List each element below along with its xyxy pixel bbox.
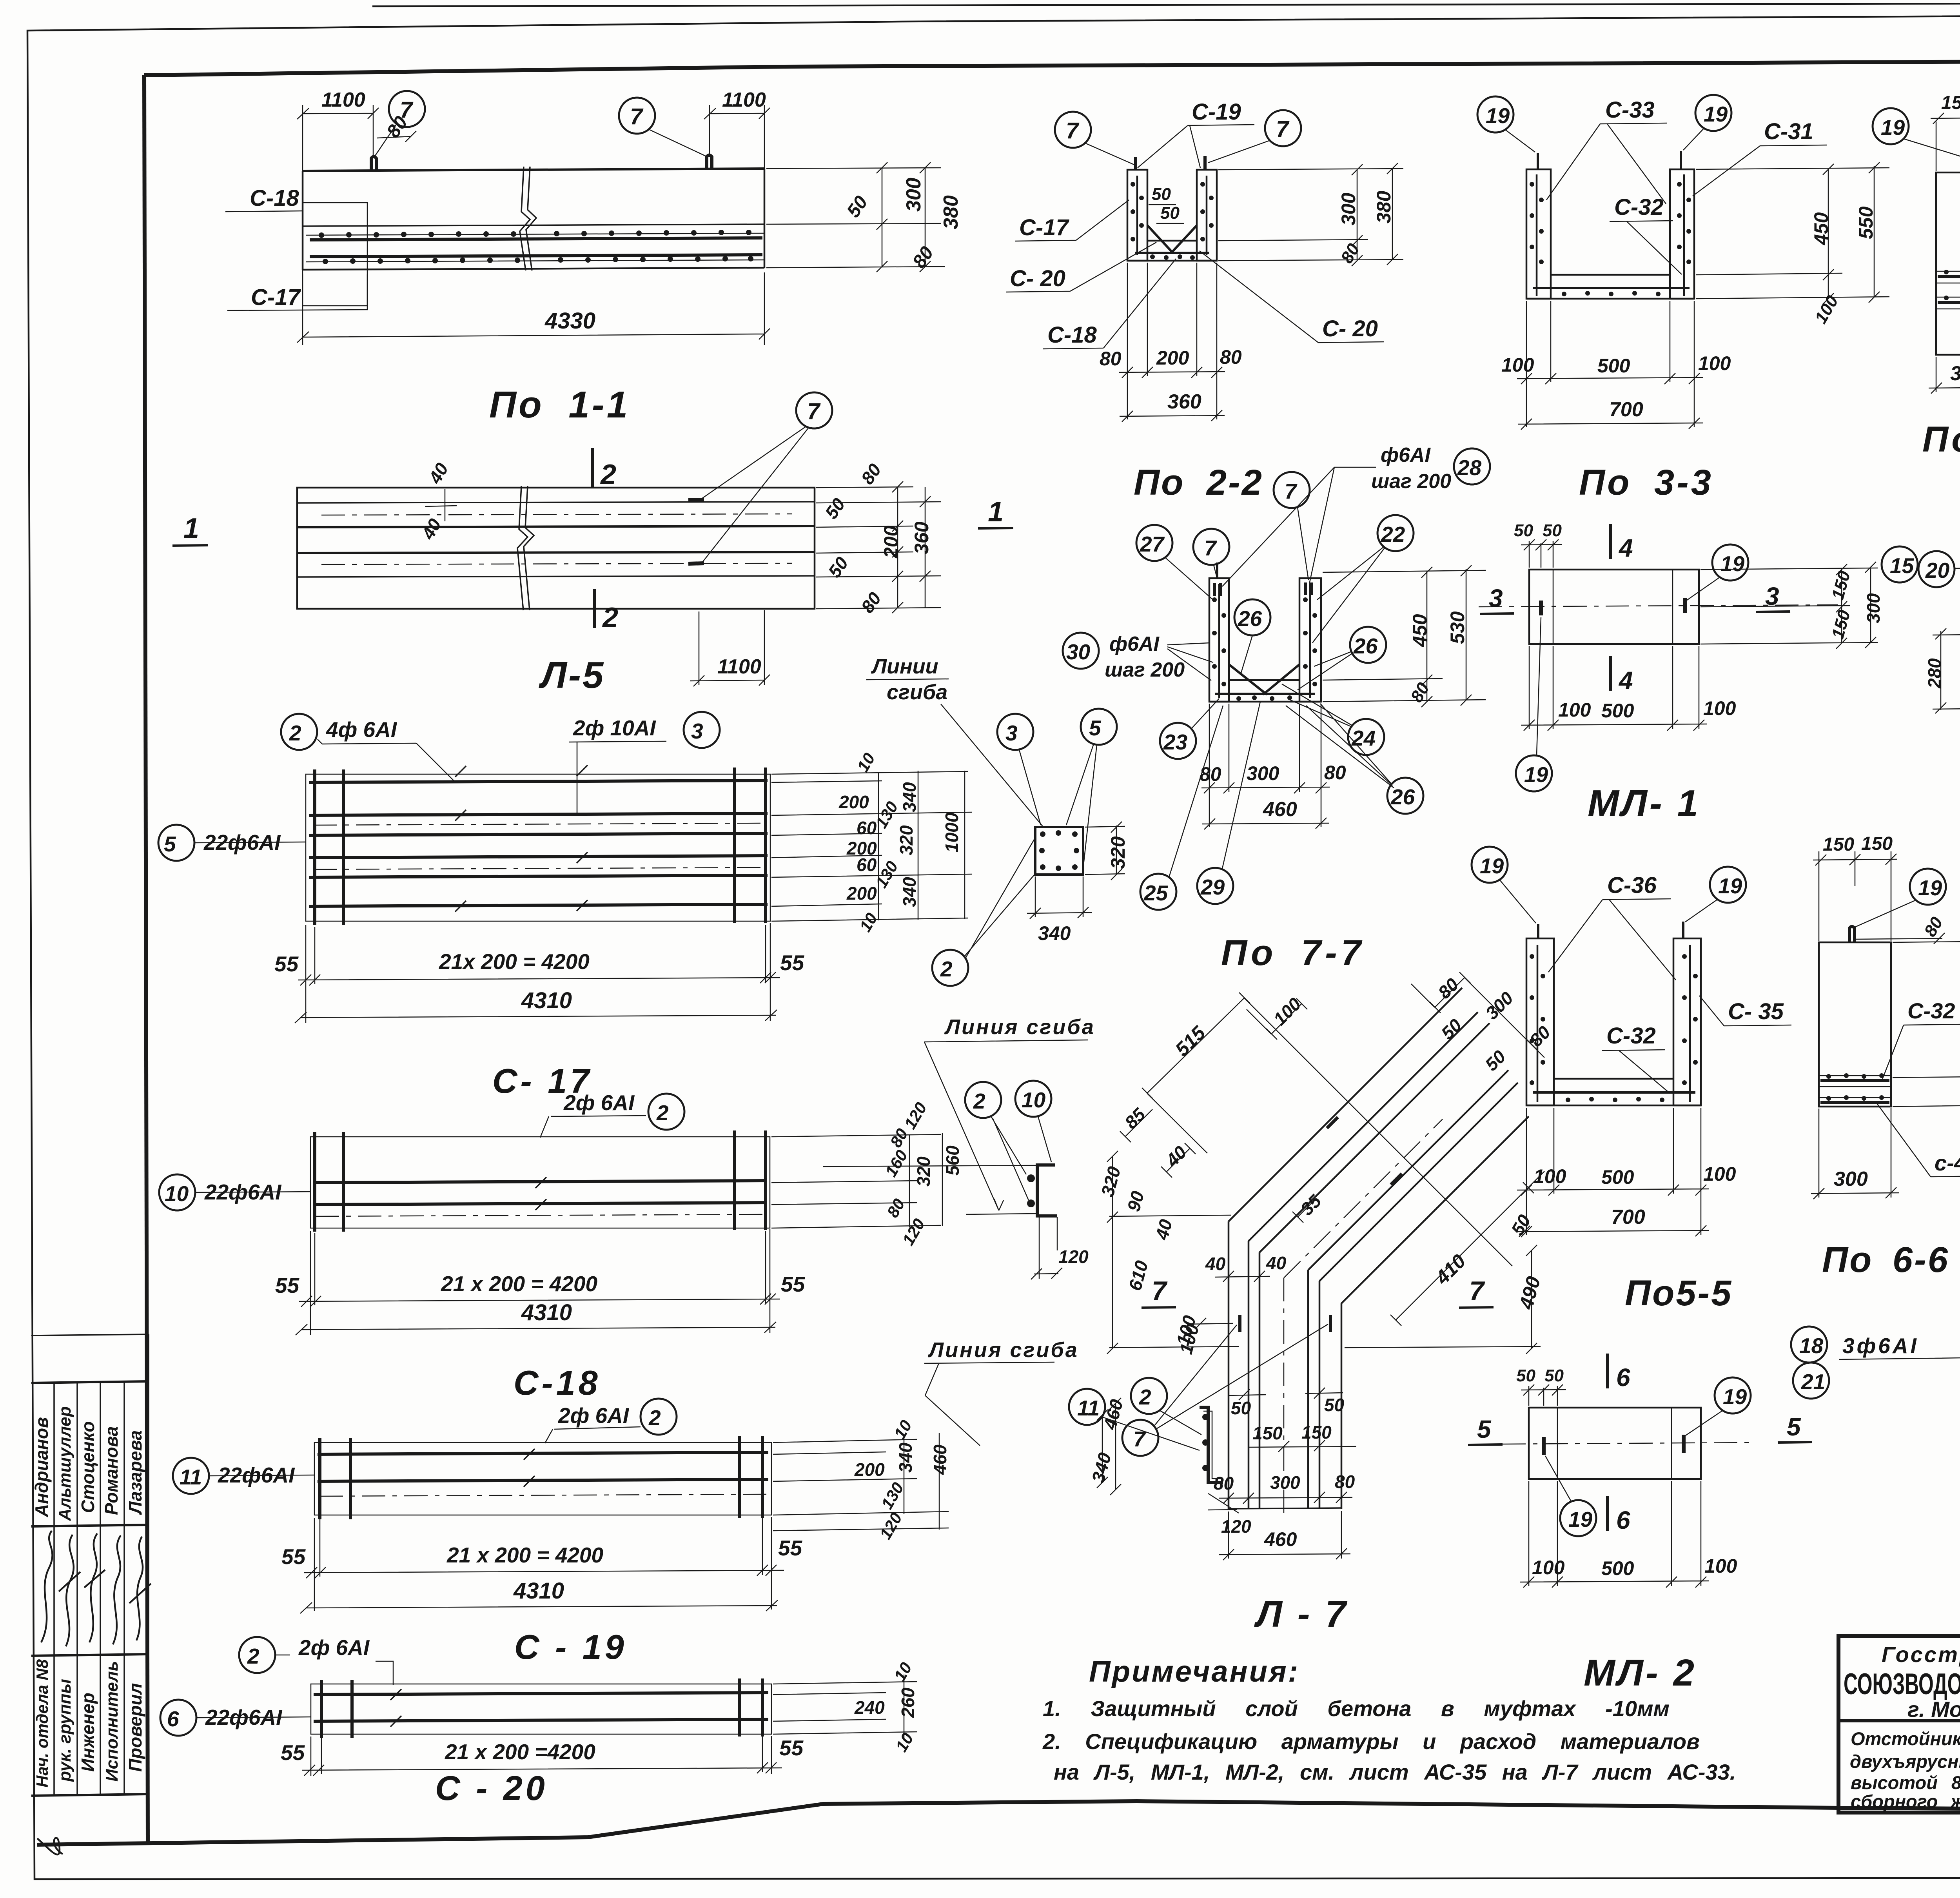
svg-text:260: 260 (898, 1688, 918, 1718)
svg-text:Линия сгиба: Линия сгиба (927, 1338, 1079, 1362)
svg-text:19: 19 (1723, 1384, 1747, 1409)
svg-text:С-18: С-18 (514, 1363, 601, 1402)
svg-text:С-32: С-32 (1606, 1023, 1656, 1049)
bottom dim 460 (1219, 1511, 1350, 1560)
svg-text:80: 80 (1200, 763, 1221, 785)
signature table right edge (147, 1334, 149, 1795)
hooks (1538, 922, 1683, 938)
svg-text:50: 50 (1324, 1395, 1345, 1415)
dim 40 (1161, 1143, 1196, 1178)
svg-text:50: 50 (1160, 203, 1180, 223)
svg-text:сборного железобетона.: сборного железобетона. (1851, 1791, 1960, 1812)
bracket dim 120 (1031, 1268, 1062, 1279)
dash-dot (319, 1494, 766, 1496)
svg-text:1: 1 (183, 513, 199, 544)
right wall (1299, 578, 1321, 702)
end cross bars (321, 1678, 762, 1738)
svg-text:100: 100 (1501, 354, 1534, 376)
svg-text:ф6АI: ф6АI (1109, 633, 1160, 655)
svg-text:Л-5: Л-5 (539, 654, 605, 696)
svg-text:100: 100 (1703, 697, 1736, 719)
svg-text:2ф 6АI: 2ф 6АI (298, 1635, 370, 1660)
trunk bottom (1229, 1508, 1341, 1509)
svg-text:1100: 1100 (722, 89, 766, 111)
svg-text:100: 100 (1532, 1557, 1565, 1579)
svg-text:340: 340 (899, 877, 920, 907)
bent bars С-20 (1135, 225, 1209, 253)
callout 6 22ф6AI (160, 1700, 196, 1736)
mid ticks (535, 1177, 546, 1210)
bottom dims (1521, 646, 1707, 731)
svg-text:100: 100 (1558, 699, 1591, 721)
callout 30 ф6AI шаг 200 left (1063, 633, 1099, 669)
right wall (1673, 938, 1701, 1105)
signature scrawl 2 (59, 1535, 80, 1646)
signature table band lines (31, 1381, 148, 1383)
callout 26 mid-left (1234, 599, 1270, 635)
dim 150 150 top (1813, 851, 1897, 941)
hooks on wall tops (1136, 156, 1205, 170)
tick above left wall (1216, 563, 1218, 578)
trunk rebar dashes (1240, 1315, 1330, 1332)
svg-text:2: 2 (656, 1101, 669, 1125)
right dims (1893, 936, 1960, 1112)
svg-text:150: 150 (1252, 1423, 1283, 1443)
callout 26 bottom (1387, 778, 1423, 814)
svg-text:двухъярусные диаметром 9м: двухъярусные диаметром 9м (1850, 1751, 1960, 1772)
bottom slab (1127, 241, 1217, 261)
svg-text:55: 55 (781, 1272, 806, 1296)
svg-text:150: 150 (1823, 834, 1854, 855)
svg-text:320: 320 (896, 825, 916, 855)
branch rebar dashes (1327, 1117, 1402, 1185)
svg-text:550: 550 (1855, 206, 1877, 239)
callout 19 bottom (1560, 1500, 1596, 1536)
title block outer (1838, 1636, 1960, 1813)
beam break mark (520, 167, 536, 270)
end cross bars (320, 1436, 762, 1519)
dim 35 (1292, 1201, 1313, 1223)
svg-text:360: 360 (1167, 390, 1201, 413)
svg-text:19: 19 (1720, 552, 1745, 576)
svg-text:3: 3 (691, 719, 703, 743)
right dim lines (1218, 163, 1403, 266)
svg-text:500: 500 (1601, 700, 1634, 722)
svg-text:460: 460 (1263, 798, 1297, 821)
callout 2 4ф6AI (281, 714, 317, 750)
svg-text:55: 55 (274, 952, 299, 976)
bottom dim 21x200=4200 (298, 923, 780, 1023)
svg-text:320: 320 (913, 1156, 934, 1187)
svg-text:80: 80 (1324, 762, 1346, 784)
longitudinal bars (309, 780, 768, 906)
svg-text:7: 7 (1276, 116, 1290, 142)
svg-text:28: 28 (1457, 455, 1482, 480)
bottom dims 80 300 80 (1219, 1492, 1352, 1504)
bottom slab (1526, 275, 1694, 299)
svg-text:высотой 8,5 м из: высотой 8,5 м из (1851, 1772, 1960, 1793)
rebar dots (1530, 954, 1698, 1102)
dim 85 (1120, 1109, 1152, 1142)
section mark 6 bottom (1606, 1496, 1609, 1531)
svg-text:2: 2 (648, 1406, 661, 1430)
svg-text:22: 22 (1381, 522, 1405, 546)
bottom slab (1209, 680, 1321, 702)
svg-text:С-32: С-32 (1614, 194, 1664, 220)
hook anchor right (707, 155, 712, 170)
svg-text:1100: 1100 (717, 655, 761, 678)
svg-text:МЛ- 2: МЛ- 2 (1584, 1652, 1697, 1694)
svg-text:40: 40 (1266, 1253, 1287, 1273)
bottom dims 50 50 150 150 (1229, 1388, 1356, 1452)
svg-text:26: 26 (1353, 634, 1378, 658)
svg-text:7: 7 (630, 104, 644, 129)
dim 150 150 top (1931, 112, 1960, 171)
svg-text:С-36: С-36 (1607, 873, 1657, 898)
svg-text:6: 6 (1616, 1363, 1630, 1392)
svg-text:120: 120 (1058, 1247, 1089, 1267)
longitudinal bars (314, 1693, 768, 1721)
section mark 6 top (1606, 1354, 1609, 1388)
svg-text:55: 55 (281, 1740, 305, 1765)
svg-text:2: 2 (600, 459, 616, 490)
svg-text:По5-5: По5-5 (1625, 1273, 1733, 1313)
svg-text:100: 100 (1704, 1555, 1737, 1577)
svg-text:30: 30 (1066, 640, 1091, 664)
svg-text:55: 55 (780, 951, 805, 975)
callout 19 top (1715, 1377, 1751, 1414)
trunk centerline (1283, 1278, 1285, 1513)
svg-text:11: 11 (180, 1465, 202, 1489)
rebar mesh band (310, 238, 762, 257)
svg-text:4ф 6АI: 4ф 6АI (326, 717, 397, 742)
callout 7 right (1265, 110, 1301, 146)
right dims (771, 1133, 942, 1228)
mesh outline (310, 1137, 770, 1228)
svg-text:Линии: Линии (871, 655, 938, 678)
callout 7 (1193, 529, 1229, 565)
end cross bars (315, 1130, 766, 1232)
callout circle 7 left (389, 91, 425, 127)
beam inner line (303, 224, 764, 226)
svg-text:сгиба: сгиба (887, 680, 947, 704)
svg-text:50: 50 (1543, 521, 1562, 540)
svg-text:55: 55 (779, 1736, 804, 1760)
svg-text:4310: 4310 (521, 1300, 572, 1325)
callout 19 (1910, 869, 1946, 905)
svg-text:7: 7 (807, 399, 821, 424)
callout 19 left (1477, 96, 1514, 132)
beam outline (303, 169, 764, 171)
rebar dashes (1544, 1435, 1684, 1455)
svg-text:По 4 - 4: По 4 - 4 (1922, 419, 1960, 459)
callout circle 7 plan (796, 392, 832, 428)
centerline (1502, 1443, 1750, 1444)
callout 5 (1081, 709, 1117, 745)
dim 490 right (1345, 1245, 1541, 1354)
svg-text:50: 50 (1544, 1366, 1564, 1385)
bottom dims (1201, 704, 1330, 829)
callout 11 (1069, 1389, 1105, 1425)
svg-text:200: 200 (838, 792, 869, 812)
svg-text:19: 19 (1718, 874, 1742, 898)
callout 25 (1140, 874, 1176, 910)
svg-text:3ф6АI: 3ф6АI (1842, 1334, 1919, 1358)
right dim extension lines (771, 771, 972, 921)
svg-text:рук. группы: рук. группы (55, 1679, 74, 1782)
svg-text:19: 19 (1486, 103, 1510, 128)
svg-text:Лазарева: Лазарева (125, 1430, 145, 1515)
svg-text:С-31: С-31 (1764, 119, 1813, 144)
svg-text:Отстойники Канализационные: Отстойники Канализационные (1851, 1728, 1960, 1749)
svg-text:7: 7 (1066, 118, 1080, 143)
dim 515 diagonal (1142, 993, 1512, 1266)
svg-text:500: 500 (1597, 355, 1630, 377)
dim 80 at hook (377, 131, 416, 142)
signature scrawl 5 (129, 1537, 151, 1640)
callout 10 (1015, 1081, 1051, 1117)
svg-text:4: 4 (1618, 534, 1633, 562)
dim 1100 right (704, 105, 770, 169)
svg-text:5: 5 (1477, 1415, 1492, 1443)
rebar dots in walls (1131, 182, 1214, 260)
branch dash-dot (1284, 1119, 1443, 1278)
svg-text:240: 240 (854, 1697, 885, 1718)
fold dash-dot line (316, 1214, 764, 1216)
svg-text:1: 1 (988, 496, 1004, 528)
svg-text:4: 4 (1618, 666, 1633, 695)
callout 19 top (1712, 544, 1748, 581)
bottom dims (1517, 1108, 1709, 1237)
svg-text:Андрианов: Андрианов (31, 1417, 52, 1517)
svg-text:7: 7 (1469, 1276, 1485, 1306)
svg-text:Проверил: Проверил (125, 1683, 145, 1772)
plan dash-dot lines (321, 514, 792, 564)
callout 24 (1348, 719, 1384, 755)
callout 2 2ф6AI (239, 1637, 275, 1673)
svg-text:С-17: С-17 (1019, 215, 1069, 240)
callout 19 left (1472, 847, 1508, 883)
bent bars (1215, 664, 1315, 695)
svg-text:С-33: С-33 (1605, 97, 1655, 123)
right wall (1197, 170, 1217, 261)
svg-text:19: 19 (1918, 876, 1942, 900)
svg-text:6: 6 (167, 1707, 179, 1731)
svg-text:15: 15 (1890, 553, 1915, 578)
svg-text:500: 500 (1601, 1166, 1634, 1188)
callout 26 mid-right (1350, 627, 1386, 663)
dim 100 trunk left (1190, 1318, 1233, 1329)
svg-text:шаг 200: шаг 200 (1371, 470, 1451, 493)
section mark 4 top (1609, 524, 1612, 559)
bottom dim 300 (1811, 1108, 1899, 1199)
bracket leg (1039, 1217, 1057, 1279)
svg-text:По 6-6: По 6-6 (1822, 1240, 1949, 1280)
svg-text:Инженер: Инженер (78, 1693, 98, 1772)
extension lines from С-18 mesh to bracket (823, 1165, 1036, 1214)
plan break mark (517, 486, 534, 610)
svg-text:2: 2 (940, 957, 953, 981)
section mark 2 bottom (593, 589, 596, 628)
svg-text:200: 200 (846, 883, 877, 904)
svg-text:Госстрой: Госстрой (1882, 1642, 1960, 1667)
svg-text:3: 3 (1005, 721, 1018, 745)
svg-text:МЛ- 1: МЛ- 1 (1588, 782, 1700, 824)
bottom slab (1526, 1079, 1701, 1105)
svg-text:С- 35: С- 35 (1728, 999, 1784, 1024)
square dim 320 (1085, 822, 1125, 880)
svg-text:С-18: С-18 (1047, 322, 1097, 348)
svg-text:200: 200 (880, 525, 902, 559)
svg-text:Стоценко: Стоценко (78, 1421, 98, 1513)
rebar dashes (1541, 598, 1685, 615)
dim 4330 (297, 272, 770, 345)
signature table top line (31, 1334, 148, 1335)
bottom dims (1520, 1481, 1709, 1588)
svg-text:Примечания:: Примечания: (1089, 1655, 1299, 1688)
section mark 4 bottom (1609, 656, 1612, 691)
title block left cell divider (1838, 1719, 1960, 1722)
svg-text:560: 560 (942, 1145, 963, 1176)
callout 19 right (1695, 95, 1731, 131)
hook on top (1849, 927, 1855, 943)
bottom dims (1517, 301, 1703, 430)
callout 5 22ф6AI (158, 825, 194, 861)
svg-text:С - 19: С - 19 (514, 1628, 627, 1666)
left wall (1127, 170, 1147, 261)
svg-text:7: 7 (1152, 1276, 1168, 1306)
svg-text:Нач. отдела N8: Нач. отдела N8 (33, 1659, 51, 1787)
dims 40 40 on trunk (1215, 1271, 1270, 1282)
svg-text:г. Москва: г. Москва (1907, 1697, 1960, 1722)
bottom dim 4310 (295, 1010, 777, 1023)
mesh outline (314, 1443, 771, 1515)
svg-text:19: 19 (1524, 762, 1548, 787)
plan right dim lines (816, 481, 941, 613)
callout 7 with leaders to dashes (1122, 1420, 1158, 1456)
dim 1100 left (297, 105, 379, 171)
signature scrawl 4 (113, 1535, 121, 1644)
svg-text:21 х 200 = 4200: 21 х 200 = 4200 (446, 1543, 604, 1567)
svg-text:По 1-1: По 1-1 (489, 384, 630, 426)
svg-text:340: 340 (895, 1443, 916, 1473)
signature scrawl 3 (84, 1533, 105, 1642)
mid ticks (524, 1449, 535, 1487)
svg-text:7: 7 (1204, 536, 1217, 560)
svg-text:50: 50 (1152, 185, 1171, 204)
svg-text:2: 2 (1139, 1385, 1151, 1409)
rebar dots (1212, 597, 1317, 701)
svg-text:300: 300 (1338, 192, 1359, 225)
svg-text:Альтшуллер: Альтшуллер (55, 1406, 74, 1521)
svg-text:на Л-5, МЛ-1, МЛ-2, см. лист: на Л-5, МЛ-1, МЛ-2, см. лист АС-35 на Л-… (1054, 1760, 1736, 1784)
svg-text:50: 50 (1516, 1366, 1535, 1385)
signature table column lines (54, 1382, 124, 1795)
svg-text:530: 530 (1446, 611, 1468, 644)
svg-text:200: 200 (1156, 347, 1189, 369)
bottom dim 300 (1929, 356, 1960, 394)
svg-text:450: 450 (1409, 614, 1431, 647)
callout 29 (1197, 868, 1233, 904)
callout 2 (965, 1082, 1001, 1118)
svg-text:80: 80 (1100, 348, 1122, 370)
right dims (773, 1675, 917, 1740)
bottom dims (302, 1736, 782, 1776)
svg-text:4310: 4310 (513, 1578, 564, 1604)
svg-text:29: 29 (1200, 875, 1225, 899)
trunk vertical lines (1229, 1221, 1259, 1509)
callout 2 (932, 950, 968, 986)
diagonal branch lines (1229, 988, 1529, 1303)
svg-text:ф6АI: ф6АI (1381, 444, 1431, 466)
dim 100 diagonal top (1247, 998, 1307, 1040)
svg-text:4330: 4330 (544, 308, 595, 334)
slab bottom bar (1533, 287, 1690, 289)
wall rebar (1137, 176, 1207, 255)
svg-text:55: 55 (778, 1536, 803, 1560)
svg-text:100: 100 (1703, 1163, 1736, 1185)
svg-text:21 х 200 = 4200: 21 х 200 = 4200 (441, 1272, 598, 1296)
wall bars (1537, 945, 1690, 1102)
svg-text:700: 700 (1611, 1206, 1645, 1228)
rebar bands (1820, 1081, 1889, 1102)
svg-text:460: 460 (930, 1444, 950, 1475)
hook anchor left (371, 157, 376, 171)
dim lines right of beam (766, 162, 945, 272)
right dims (1696, 162, 1889, 304)
section mark 2 top (591, 448, 594, 487)
svg-text:С-32: С-32 (1907, 998, 1955, 1023)
svg-text:26: 26 (1390, 785, 1415, 809)
svg-text:55: 55 (275, 1273, 300, 1297)
svg-text:10: 10 (165, 1181, 189, 1206)
rebar dots (319, 230, 753, 264)
svg-text:2ф 6АI: 2ф 6АI (558, 1403, 630, 1428)
svg-text:2: 2 (289, 721, 301, 745)
svg-text:С - 20: С - 20 (435, 1769, 548, 1807)
mesh zone rect C-18 (303, 203, 367, 306)
svg-text:55: 55 (281, 1544, 306, 1569)
svg-text:100: 100 (1534, 1165, 1566, 1187)
rebar end dash bottom (688, 563, 704, 564)
svg-text:С-17: С-17 (251, 285, 301, 310)
svg-text:21: 21 (1801, 1370, 1825, 1394)
signature scrawl 1 (41, 1531, 53, 1642)
svg-text:С- 20: С- 20 (1322, 316, 1378, 341)
svg-text:450: 450 (1810, 212, 1832, 245)
svg-text:340: 340 (1038, 922, 1071, 944)
svg-text:2. Спецификацию арматуры и: 2. Спецификацию арматуры и расход матери… (1042, 1729, 1700, 1754)
svg-text:С-18: С-18 (250, 185, 299, 211)
svg-text:300: 300 (1270, 1472, 1300, 1493)
svg-text:19: 19 (1480, 854, 1504, 878)
svg-text:19: 19 (1704, 102, 1728, 126)
svg-text:23: 23 (1163, 730, 1187, 754)
callout 7 left (1055, 112, 1091, 148)
wall rebar (1219, 584, 1310, 698)
svg-text:80: 80 (1335, 1472, 1355, 1492)
svg-text:Л - 7: Л - 7 (1254, 1593, 1348, 1635)
right dims (1323, 565, 1486, 707)
svg-text:10: 10 (1022, 1088, 1046, 1112)
left wall (1526, 169, 1551, 299)
bracket profile (1037, 1165, 1057, 1216)
svg-text:120: 120 (1221, 1516, 1251, 1537)
mid ticks (390, 1689, 401, 1727)
svg-text:18: 18 (1799, 1334, 1824, 1358)
plan outline (297, 488, 815, 609)
hooks (1538, 151, 1681, 169)
